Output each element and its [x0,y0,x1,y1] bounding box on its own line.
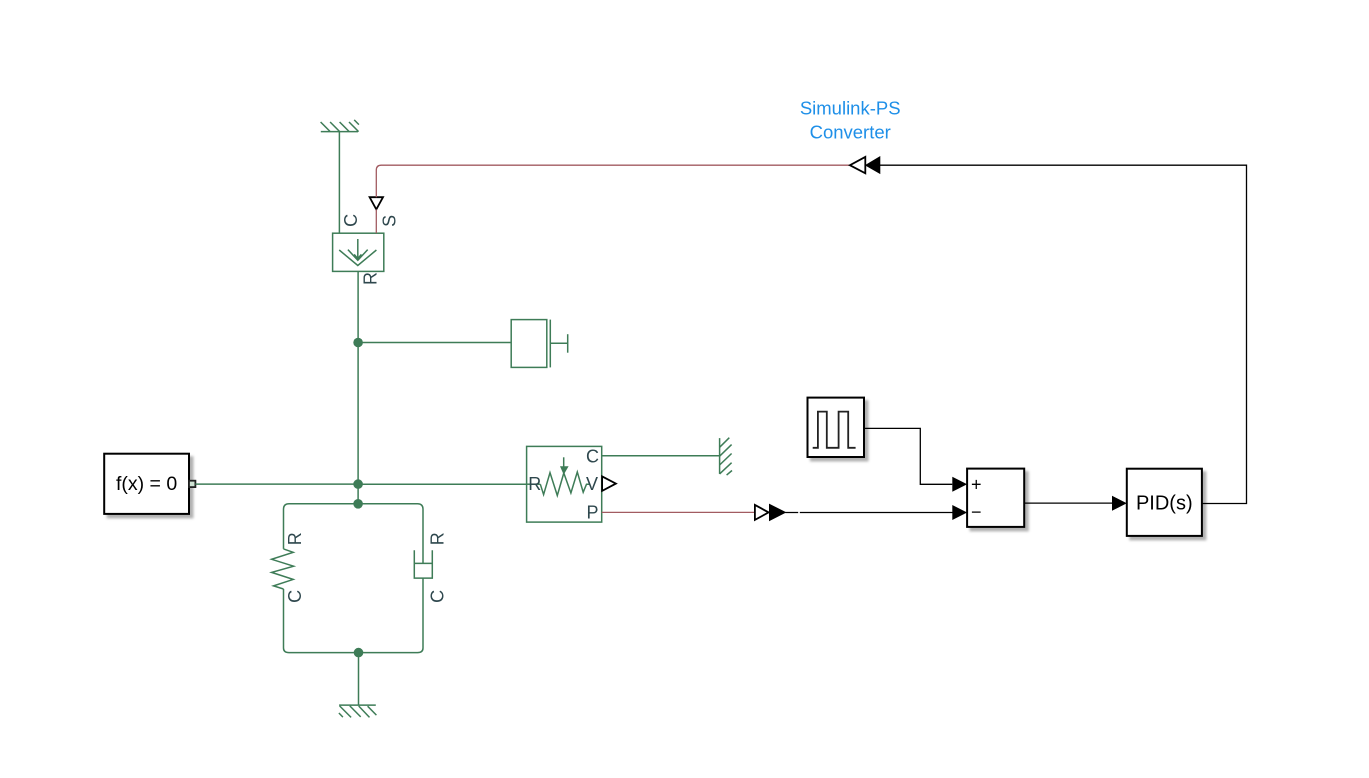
solver port square [189,481,195,487]
sensor block (ideal translational motion sensor) [527,446,602,522]
port label R (force source) [361,272,381,285]
damper (translational damper) [414,550,432,648]
svg-text:Simulink-PS: Simulink-PS [800,98,901,119]
svg-text:C: C [586,447,599,467]
wire: sensor P port to PS-Simulink converter (dark red) [602,511,755,513]
port label R (spring) [285,532,305,545]
svg-text:V: V [586,474,598,494]
wire: node to mass [358,342,511,344]
port label R (sensor) [528,474,541,494]
port label C (sensor) [586,447,599,467]
wire: sum to PID [1024,502,1112,504]
node (bottom junction) [354,648,364,658]
solver block f(x)=0 [104,454,189,514]
mass block [511,320,568,368]
port label C (damper) [427,590,447,603]
ground (mechanical reference, bottom) [339,705,377,717]
wire: force source R port down to main node [357,271,359,503]
sum block [967,469,1024,527]
arrowhead into sum minus [952,505,967,520]
spring (translational spring) [272,549,294,648]
svg-text:P: P [586,502,598,522]
svg-text:Converter: Converter [810,122,891,143]
wire: PS signal from Simulink-PS converter to S port (dark red) [376,165,850,233]
svg-text:PID(s): PID(s) [1136,493,1193,515]
svg-text:R: R [285,532,305,545]
wire: spring-damper top rail [284,504,424,563]
arrowhead into sum plus [952,477,967,492]
port label R (damper) [427,532,447,545]
node (spring-damper top junction) [353,499,363,509]
port label C (force source) [341,214,361,227]
node (mass branch junction) [353,338,363,348]
svg-text:f(x) = 0: f(x) = 0 [116,473,177,495]
svg-text:R: R [361,272,381,285]
svg-text:S: S [379,215,399,227]
V port PS output triangle [602,476,616,491]
svg-text:+: + [971,475,982,495]
PS input port arrow (S port, hollow triangle down) [370,197,383,209]
wire: PS-Simulink converter to sum minus input [785,512,952,514]
annotation: Simulink-PS Converter label [800,98,901,143]
port label V (sensor) [586,474,598,494]
wire: main node to sensor R port [358,483,526,485]
port label S (force source) [379,215,399,227]
svg-text:R: R [528,474,541,494]
port label C (spring) [285,590,305,603]
ground (wall, right of sensor) [720,438,732,475]
node (main junction) [353,479,363,489]
wire: top ground to force source C port [338,132,340,234]
wire: PID output feedback to Simulink-PS converter [879,165,1246,503]
Simulink-PS converter [850,157,880,173]
arrowhead into PID [1112,496,1127,511]
PID controller block [1127,469,1202,536]
svg-text:C: C [341,214,361,227]
wire: sensor C port to wall [602,455,720,457]
wire: pulse generator to sum plus input [864,428,952,484]
wire: solver to main node [195,483,358,485]
pulse generator block [808,398,865,457]
port label P (sensor) [586,502,598,522]
svg-text:C: C [427,590,447,603]
ground (mechanical reference, top) [321,120,359,132]
wire: spring-damper bottom rail [284,648,424,653]
PS-Simulink converter [755,504,785,520]
sensor arrow head [560,466,569,474]
svg-text:−: − [971,502,982,522]
force source U1 (ideal translational force source) [333,233,384,271]
svg-text:C: C [285,590,305,603]
wire: bottom node to bottom ground [358,653,360,706]
svg-text:R: R [427,532,447,545]
